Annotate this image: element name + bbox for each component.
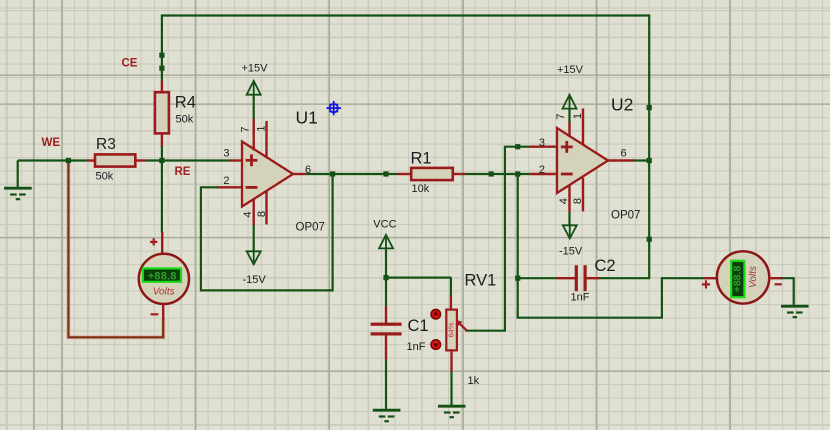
svg-text:U1: U1 (296, 108, 318, 128)
svg-text:R3: R3 (96, 136, 116, 153)
wire right voltmeter to ground (782, 278, 794, 306)
svg-text:VCC: VCC (373, 219, 396, 231)
node U2 pin3 dot (515, 144, 520, 149)
wire VCC to RV1 (386, 277, 451, 279)
svg-text:8: 8 (256, 211, 268, 217)
voltmeter right pin- (769, 277, 783, 279)
op-amp U2 pin 8 stub (582, 178, 584, 212)
voltmeter left pin- (162, 304, 164, 321)
voltmeter right minus mark (775, 283, 782, 285)
svg-text:+15V: +15V (557, 64, 584, 76)
wire C2 left (518, 277, 557, 279)
op-amp U2 pin 1 stub (582, 109, 584, 145)
resistor R4 (161, 81, 163, 94)
ground right (781, 305, 809, 308)
svg-text:U2: U2 (611, 95, 633, 115)
wire RE to voltmeter (161, 161, 163, 233)
wire input row right (146, 159, 229, 161)
voltmeter right pin+ (704, 277, 718, 279)
node C2 junction (515, 276, 520, 281)
svg-text:R1: R1 (411, 150, 432, 168)
power -15V (U2) (568, 212, 570, 226)
op-amp U1 pin 8 stub (265, 191, 267, 224)
origin marker (327, 101, 341, 115)
op-amp U1 pin 1 stub (265, 121, 267, 158)
svg-text:+88.8: +88.8 (148, 271, 177, 283)
node U2 inverting junction (515, 171, 520, 176)
op-amp U1 pin 6 stub (292, 173, 307, 175)
ground RV1 (438, 405, 466, 408)
svg-text:7: 7 (555, 113, 567, 119)
node output column dot mid (647, 237, 652, 242)
wire U2 output (633, 159, 649, 161)
svg-text:C2: C2 (595, 257, 616, 275)
svg-text:1nF: 1nF (571, 292, 590, 304)
op-amp U2 pin 6 stub (607, 159, 634, 161)
svg-text:+15V: +15V (242, 62, 269, 74)
op-amp U1 pin 3 stub (229, 159, 243, 161)
wire U1 output row (306, 173, 399, 175)
power -15V (U1) (253, 225, 255, 251)
RV1 probe dot up (431, 310, 440, 319)
svg-text:+88.8: +88.8 (732, 266, 744, 293)
svg-text:7: 7 (240, 126, 252, 132)
voltmeter left body (139, 254, 189, 304)
op-amp U1 pin 4 stub (252, 199, 254, 225)
svg-text:3: 3 (539, 137, 545, 149)
wire C2 right (600, 277, 649, 279)
node CE riser dot A (159, 53, 164, 58)
svg-text:50k: 50k (176, 114, 194, 126)
wire C1 to ground (385, 360, 387, 410)
op-amp U1 pin 2 stub (217, 186, 243, 188)
capacitor C1 (385, 306, 387, 323)
svg-text:-15V: -15V (243, 274, 267, 286)
RV1 probe dot down (431, 340, 440, 349)
node CE riser dot B (159, 66, 164, 71)
svg-text:1: 1 (256, 125, 268, 131)
svg-text:3: 3 (223, 147, 229, 159)
svg-text:R4: R4 (175, 94, 196, 112)
svg-text:50k: 50k (96, 170, 114, 182)
svg-text:OP07: OP07 (611, 210, 640, 222)
svg-text:-15V: -15V (559, 246, 583, 258)
svg-text:4: 4 (242, 211, 254, 217)
svg-text:CE: CE (122, 57, 138, 69)
voltmeter left pin+ (161, 232, 163, 255)
node VCC junction (383, 275, 388, 280)
op-amp U1 body (242, 142, 293, 207)
svg-text:4: 4 (558, 198, 570, 204)
ground input (17, 161, 19, 189)
voltmeter right plus mark (702, 283, 710, 285)
svg-text:WE: WE (42, 137, 61, 149)
op-amp U1 pin 7 stub (252, 118, 254, 151)
svg-text:Volts: Volts (748, 266, 759, 288)
node U2 output junction (647, 158, 652, 163)
svg-text:1k: 1k (468, 375, 480, 387)
wire top loop (CE riser to U2 output column) (162, 16, 649, 279)
wire U2 pin3 to RV1 wiper (467, 147, 531, 331)
node U1 feedback junction (330, 171, 335, 176)
op-amp U2 pin 3 stub (530, 145, 558, 147)
wire R4 bottom (161, 146, 163, 161)
svg-text:1: 1 (572, 113, 584, 119)
ground C1 (373, 409, 401, 412)
wire voltmeter return highlighted (68, 161, 163, 338)
node voltmeter return junction (66, 158, 71, 163)
svg-text:2: 2 (223, 175, 229, 187)
node output row dot (383, 171, 388, 176)
svg-text:1nF: 1nF (407, 341, 426, 353)
wire R1 to U2 (466, 173, 530, 175)
potentiometer RV1 (450, 296, 452, 311)
svg-text:64%: 64% (447, 322, 456, 337)
voltmeter right body (717, 251, 769, 303)
capacitor C2 (557, 277, 577, 279)
svg-text:8: 8 (572, 198, 584, 204)
svg-text:Volts: Volts (153, 287, 175, 298)
op-amp U2 pin 7 stub (568, 122, 570, 138)
op-amp U2 body (557, 128, 608, 193)
node R1 right dot (489, 171, 494, 176)
op-amp U2 pin 2 stub (529, 173, 557, 175)
resistor R3 (87, 159, 96, 161)
wire VCC to C1 (385, 278, 387, 307)
svg-text:2: 2 (539, 164, 545, 176)
svg-text:RE: RE (175, 166, 191, 178)
node output column dot top (647, 105, 652, 110)
wire U2 inverting loop (518, 174, 705, 318)
node RE junction (159, 158, 164, 163)
svg-text:10k: 10k (412, 183, 430, 195)
svg-text:RV1: RV1 (465, 272, 497, 290)
wire input row left (18, 159, 87, 161)
svg-text:OP07: OP07 (296, 221, 325, 233)
wire RV1 to ground (450, 372, 452, 406)
voltmeter left plus mark (150, 241, 157, 243)
svg-text:C1: C1 (408, 317, 429, 335)
wire U1 feedback loop (201, 173, 333, 290)
resistor R1 (398, 173, 412, 175)
op-amp U2 pin 4 stub (568, 186, 570, 212)
voltmeter left minus mark (151, 313, 159, 315)
svg-text:6: 6 (621, 148, 627, 160)
